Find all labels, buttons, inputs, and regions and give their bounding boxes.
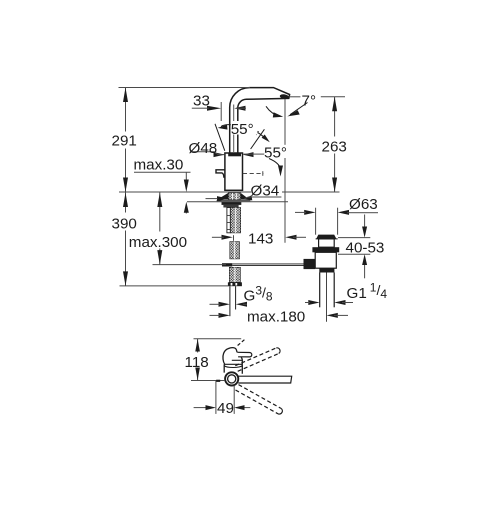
aerator xyxy=(279,94,289,100)
dashed lever tip xyxy=(238,340,245,346)
Ø34 underline xyxy=(245,197,282,199)
spout center line xyxy=(233,105,235,153)
55deg no2 double arc arrow xyxy=(253,130,268,140)
lever handle xyxy=(216,170,225,178)
mounting flange right wedge xyxy=(241,193,250,200)
label 55deg no1 xyxy=(231,121,258,135)
svg-text:max.180: max.180 xyxy=(247,309,305,326)
svg-text:118: 118 xyxy=(185,354,209,371)
Ø48 arrows xyxy=(214,152,225,157)
max.300 extension to rod xyxy=(153,264,227,266)
49 right arrow xyxy=(234,405,244,410)
49 dim lines xyxy=(194,407,207,409)
arrow 118 bottom xyxy=(195,368,200,381)
arrow max30 down xyxy=(184,180,189,193)
swivel circle outer xyxy=(225,372,238,385)
max.30 dim stems xyxy=(185,172,187,183)
mounting nut xyxy=(222,202,242,205)
arrow 291 bottom xyxy=(123,178,128,193)
svg-text:390: 390 xyxy=(112,215,137,232)
49 left arrow xyxy=(206,405,216,410)
dashed bar lower xyxy=(236,385,282,414)
arrow 263 bottom xyxy=(332,178,337,193)
Ø63 extension lines xyxy=(315,208,317,235)
svg-text:Ø34: Ø34 xyxy=(251,183,280,200)
drain tailpipe center line xyxy=(326,273,328,322)
dim 263 line xyxy=(334,97,336,137)
arrow 390 bottom xyxy=(123,271,128,286)
body top black band xyxy=(228,153,241,156)
G3/8 stub lines xyxy=(229,286,231,316)
40-53 arrows xyxy=(362,227,367,238)
svg-text:Ø48: Ø48 xyxy=(189,140,218,157)
front view dimensions xyxy=(191,339,250,414)
drain bottom band xyxy=(319,268,334,272)
arrows (side view) xyxy=(123,88,378,318)
Ø34 arrows xyxy=(217,196,228,201)
49 ext line 2 xyxy=(233,386,235,414)
dim 33 xyxy=(207,106,221,111)
Ø63 arrows xyxy=(304,210,315,215)
G3/8 arrows xyxy=(219,302,230,307)
blob on bottom ext line xyxy=(216,380,220,382)
front body base line xyxy=(224,363,242,365)
counter underside line xyxy=(187,201,288,203)
max.300 dim line xyxy=(159,192,161,232)
svg-text:291: 291 xyxy=(112,133,137,150)
drain lower body xyxy=(315,252,336,268)
40-53 extension lines xyxy=(338,237,370,239)
spout outlet line xyxy=(289,96,301,98)
55deg no1 arc arrow xyxy=(221,125,231,127)
svg-text:55°: 55° xyxy=(264,145,287,162)
49 ext line 1 xyxy=(215,381,217,414)
drain tailpipe xyxy=(319,273,321,308)
arrow 118 top xyxy=(195,339,200,352)
angle annotations xyxy=(215,103,308,177)
pop-up rod connector xyxy=(222,263,232,266)
spout riser pipe xyxy=(230,88,290,153)
max.180 arrows xyxy=(219,313,230,318)
143 left arrow xyxy=(222,235,233,240)
svg-text:49: 49 xyxy=(217,400,234,417)
svg-text:max.30: max.30 xyxy=(134,156,184,173)
label 55deg no2 xyxy=(264,145,289,158)
top extension line xyxy=(119,87,251,89)
lever grip front xyxy=(237,352,252,357)
pop-up rod double line xyxy=(232,263,303,265)
drain actuator xyxy=(304,259,316,269)
drain locking nut xyxy=(312,247,339,252)
Ø48 underline xyxy=(190,152,224,155)
svg-text:263: 263 xyxy=(322,139,347,156)
G1 1/4 arrows xyxy=(308,300,319,305)
dim 33 lines xyxy=(192,108,209,109)
arrow 263 top xyxy=(332,97,337,112)
dashed bar upper xyxy=(235,348,278,371)
svg-text:7°: 7° xyxy=(302,93,317,110)
svg-text:55°: 55° xyxy=(231,121,254,138)
svg-text:max.300: max.300 xyxy=(129,234,187,251)
7deg leader xyxy=(290,103,308,115)
55deg no2 down arc arrow xyxy=(269,159,280,170)
braided hose upper xyxy=(231,208,241,233)
118 dim line xyxy=(197,339,199,353)
55deg no2 tilted line xyxy=(251,129,265,149)
arrow max300 top xyxy=(157,193,162,207)
svg-text:Ø63: Ø63 xyxy=(349,196,378,213)
55deg no1 tilted lever line xyxy=(215,124,225,151)
arrow max30 up xyxy=(184,202,189,213)
max.30 leader line xyxy=(134,171,191,173)
40-53 dim stems xyxy=(364,215,366,230)
drain flange xyxy=(316,235,336,239)
spout bar front xyxy=(238,376,291,383)
faucet body xyxy=(225,153,243,190)
braided hose mid xyxy=(230,242,240,259)
top extension line xyxy=(194,338,242,340)
dim 291 line xyxy=(125,88,127,132)
drain upper body xyxy=(319,239,335,247)
hose-end extension line xyxy=(120,285,229,287)
counter top line xyxy=(119,191,251,193)
7deg arc xyxy=(266,106,280,116)
swivel circle inner xyxy=(228,375,236,383)
braided hose lower xyxy=(229,267,240,282)
dim 390 line xyxy=(125,192,127,213)
flange bottom line xyxy=(217,200,251,202)
mounting flange left wedge xyxy=(217,193,228,200)
143 right arrow xyxy=(285,235,296,240)
svg-text:40-53: 40-53 xyxy=(346,239,385,256)
dashed swivel line xyxy=(243,173,264,175)
arrow max300 bottom xyxy=(157,250,162,265)
smooth hose tube xyxy=(227,208,230,233)
bottom extension line xyxy=(191,380,225,382)
hose G3/8 nut xyxy=(228,282,242,286)
handle dome xyxy=(223,348,237,365)
svg-text:33: 33 xyxy=(193,92,210,109)
spout outlet extension line down xyxy=(284,99,286,243)
svg-text:143: 143 xyxy=(248,231,273,248)
arrow 390 top xyxy=(123,193,128,207)
threaded shank between wedges xyxy=(228,193,240,200)
front body xyxy=(224,364,242,374)
arrow 291 top xyxy=(123,88,128,103)
